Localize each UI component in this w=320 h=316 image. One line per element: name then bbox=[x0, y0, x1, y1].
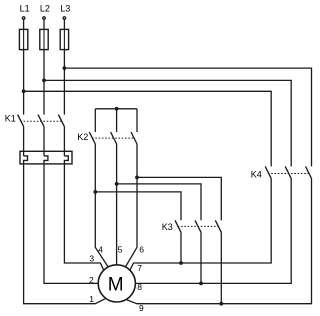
wire K4 pole2 to motor terminal 8 bbox=[135, 178, 291, 283]
wire K3 pole1 lower bbox=[180, 232, 182, 263]
wire K2 pole1 to motor terminal 4 bbox=[95, 144, 108, 267]
contactor K4 linkage bbox=[268, 173, 309, 175]
wire fuse F2 link bbox=[43, 29, 45, 49]
overload heater 3 bbox=[64, 156, 68, 164]
contactor K3 pole1 contact bbox=[175, 220, 181, 232]
contactor K3 linkage bbox=[178, 225, 219, 227]
svg-text:L3: L3 bbox=[60, 3, 70, 13]
wire overload to motor terminal 2 bbox=[44, 164, 98, 284]
fuse F2 bbox=[40, 29, 48, 49]
wire fuse F1 link bbox=[23, 29, 25, 49]
motor terminal label 6 bbox=[139, 245, 144, 255]
motor terminal label 4 bbox=[98, 244, 103, 254]
contactor K4 pole1 contact bbox=[265, 166, 271, 178]
motor terminal label 7 bbox=[137, 263, 142, 273]
motor terminal label 9 bbox=[139, 303, 144, 313]
fuse F1 bbox=[19, 29, 27, 49]
contactor K2 linkage bbox=[92, 137, 134, 139]
node K3 pole2 junction bbox=[199, 282, 203, 286]
contactor K2 pole3 contact bbox=[131, 132, 137, 144]
wire K2 pole2 upper bbox=[116, 109, 118, 132]
svg-text:5: 5 bbox=[118, 244, 123, 254]
wire K3 pole3 lower bbox=[220, 232, 222, 303]
wire K4 pole1 to motor terminal 7 bbox=[130, 178, 271, 270]
label L2 bbox=[40, 3, 50, 13]
svg-text:6: 6 bbox=[139, 245, 144, 255]
motor terminal label 8 bbox=[137, 282, 142, 292]
contactor K1 linkage bbox=[20, 120, 61, 122]
wire feed L1 to K4 pole1 bbox=[24, 91, 272, 166]
node K3 pole1 junction bbox=[179, 261, 183, 265]
contactor K4 pole3 contact bbox=[306, 166, 312, 178]
wire K2 pole3 upper bbox=[136, 109, 138, 132]
wire fuse F3 link bbox=[63, 29, 65, 49]
svg-text:K4: K4 bbox=[251, 169, 262, 179]
contactor K1 pole1 contact bbox=[18, 115, 24, 127]
svg-text:2: 2 bbox=[89, 275, 94, 285]
wire L1 column top bbox=[23, 19, 25, 114]
contactor K2 pole2 contact bbox=[111, 132, 117, 144]
wire L3 column top bbox=[63, 19, 65, 114]
wire overload to motor terminal 1 bbox=[24, 164, 106, 304]
overload relay box bbox=[20, 151, 72, 164]
contactor K3 pole2 contact bbox=[195, 220, 201, 232]
node K2 bus bbox=[115, 107, 119, 111]
contactor K1 pole2 contact bbox=[38, 115, 44, 127]
wire K4 pole3 to motor terminal 9 bbox=[127, 178, 312, 303]
contactor K3 label bbox=[162, 222, 173, 232]
wire K2 pole2 to K3 pole2 bbox=[117, 184, 201, 220]
contactor K3 pole3 contact bbox=[215, 220, 221, 232]
svg-text:L1: L1 bbox=[20, 3, 30, 13]
terminal L2 bbox=[43, 17, 46, 20]
wire overload to motor terminal 3 bbox=[64, 164, 103, 270]
svg-text:7: 7 bbox=[137, 263, 142, 273]
svg-text:L2: L2 bbox=[40, 3, 50, 13]
svg-text:K3: K3 bbox=[162, 222, 173, 232]
svg-text:8: 8 bbox=[137, 282, 142, 292]
motor terminal label 5 bbox=[118, 244, 123, 254]
wire K2 pole1 to K3 pole1 bbox=[95, 192, 181, 220]
overload heater 1 bbox=[24, 156, 28, 164]
node K2 pole2 branch bbox=[115, 182, 119, 186]
contactor K4 label bbox=[251, 169, 262, 179]
svg-text:9: 9 bbox=[139, 303, 144, 313]
node L1 feed bbox=[22, 89, 26, 93]
wire feed L2 to K4 pole2 bbox=[44, 80, 291, 166]
svg-text:K2: K2 bbox=[77, 132, 88, 142]
contactor K2 pole1 contact bbox=[89, 132, 95, 144]
label L1 bbox=[20, 3, 30, 13]
node K2 pole3 branch bbox=[135, 176, 139, 180]
wire K2 pole3 to motor terminal 6 bbox=[125, 144, 137, 267]
wire K2 pole2 to motor terminal 5 bbox=[116, 144, 118, 265]
fuse F3 bbox=[60, 29, 68, 49]
svg-text:4: 4 bbox=[98, 244, 103, 254]
terminal L1 bbox=[22, 17, 25, 20]
wire L2 column top bbox=[43, 19, 45, 114]
contactor K2 supply bus bbox=[95, 108, 137, 110]
node L3 feed bbox=[63, 66, 67, 70]
wire K1 pole3 to overload bbox=[63, 127, 65, 156]
motor M bbox=[98, 265, 135, 302]
contactor K4 pole2 contact bbox=[285, 166, 291, 178]
svg-text:M: M bbox=[108, 274, 124, 295]
node K2 pole1 branch bbox=[93, 190, 97, 194]
overload heater 2 bbox=[44, 156, 48, 164]
svg-text:3: 3 bbox=[89, 254, 94, 264]
contactor K1 pole3 contact bbox=[58, 115, 64, 127]
contactor K2 label bbox=[77, 132, 88, 142]
wire K1 pole1 to overload bbox=[23, 127, 25, 156]
node L2 feed bbox=[42, 79, 46, 83]
motor terminal label 3 bbox=[89, 254, 94, 264]
wire K2 pole3 to K3 pole3 bbox=[137, 177, 221, 220]
wire K3 pole2 lower bbox=[200, 232, 202, 283]
contactor K1 label bbox=[5, 114, 16, 124]
node K3 pole3 junction bbox=[219, 302, 223, 306]
wire K1 pole2 to overload bbox=[43, 127, 45, 156]
svg-text:1: 1 bbox=[89, 294, 94, 304]
wire K2 pole1 upper bbox=[94, 109, 96, 132]
wire feed L3 to K4 pole3 bbox=[64, 68, 311, 166]
motor terminal label 2 bbox=[89, 275, 94, 285]
motor terminal label 1 bbox=[89, 294, 94, 304]
terminal L3 bbox=[63, 17, 66, 20]
svg-text:K1: K1 bbox=[5, 114, 16, 124]
label L3 bbox=[60, 3, 70, 13]
